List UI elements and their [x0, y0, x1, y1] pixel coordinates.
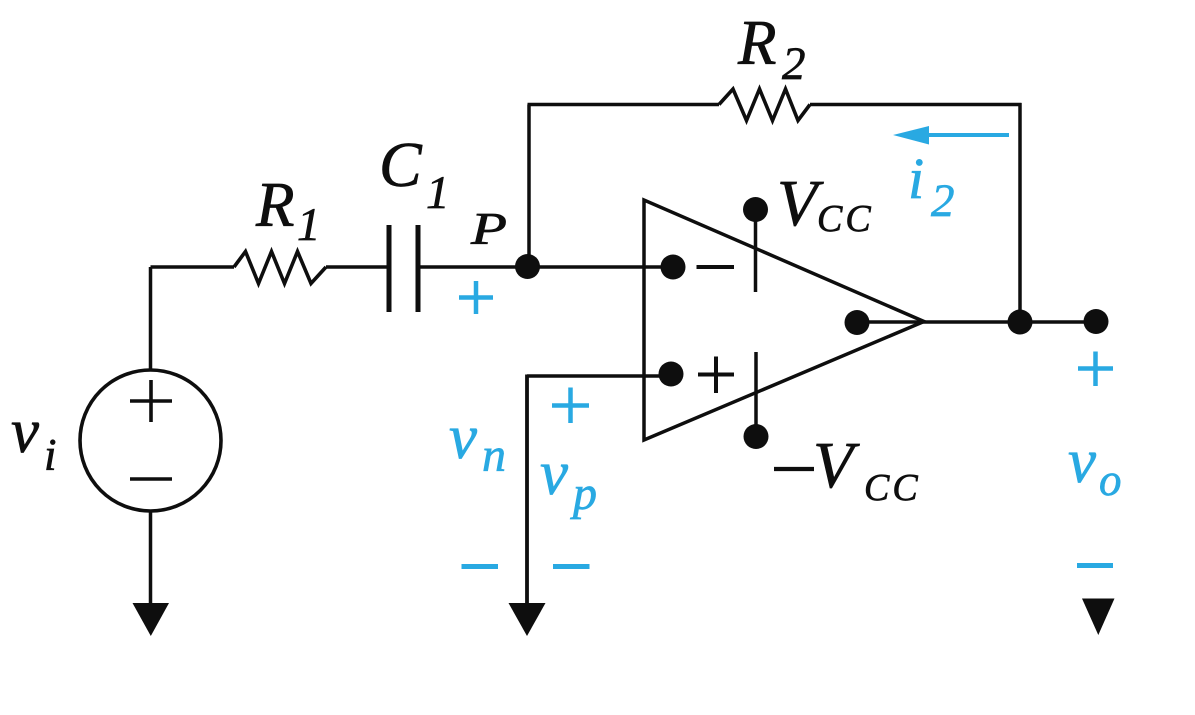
- label vi: [11, 396, 57, 480]
- wire from op-amp output to terminal: [869, 320, 1096, 324]
- wire from source top to main input wire: [149, 267, 153, 369]
- ground (under source): [133, 603, 170, 636]
- node (output terminal dot): [1084, 309, 1109, 334]
- wire from op-amp non-inverting input to vp node: [527, 374, 671, 378]
- plus sign (vn polarity, cyan): [459, 281, 493, 314]
- output pin dot (inside triangle): [845, 310, 870, 335]
- capacitor C1: [389, 225, 418, 312]
- plus sign (vo polarity, cyan): [1078, 352, 1113, 387]
- svg-text:2: 2: [931, 175, 955, 227]
- current arrow i2 (cyan): [893, 126, 1009, 145]
- svg-text:R: R: [737, 8, 776, 78]
- svg-text:P: P: [470, 204, 507, 254]
- inverting input pin (dot and minus): [661, 255, 735, 280]
- label C1: [379, 129, 450, 219]
- wire feedback top, right of R2: [810, 103, 1022, 107]
- label VCC: [777, 167, 874, 240]
- svg-text:V: V: [813, 429, 860, 502]
- svg-text:v: v: [11, 396, 39, 466]
- non-inverting input pin (dot and plus): [659, 357, 735, 394]
- -VCC pin (line and dot): [744, 352, 769, 449]
- plus sign (vp polarity, cyan): [552, 388, 589, 424]
- svg-text:R: R: [255, 170, 294, 240]
- wire from source to R1: [151, 265, 235, 269]
- wire from node P up to feedback: [527, 105, 531, 268]
- minus sign (vn polarity, cyan): [462, 564, 499, 569]
- wire from R1 to C1: [326, 265, 389, 269]
- svg-text:1: 1: [426, 167, 450, 219]
- svg-text:v: v: [449, 402, 477, 472]
- VCC pin (line and dot): [743, 197, 768, 292]
- svg-text:i: i: [44, 430, 57, 480]
- svg-text:i: i: [908, 146, 924, 211]
- svg-text:o: o: [1099, 455, 1122, 505]
- node (feedback/output junction dot): [1008, 310, 1033, 335]
- label vn (cyan): [449, 402, 506, 482]
- wire feedback right vertical down to output: [1018, 103, 1022, 322]
- label i2 (cyan): [908, 146, 955, 227]
- label P: [470, 204, 507, 254]
- label R1: [255, 170, 321, 251]
- resistor R2: [719, 89, 810, 121]
- ground (output, small triangle): [1082, 599, 1115, 636]
- svg-text:C: C: [379, 129, 423, 200]
- resistor R1: [234, 252, 326, 284]
- label R2: [737, 8, 806, 90]
- minus sign (vo polarity, cyan): [1077, 563, 1113, 568]
- wire from C1 to op-amp inverting input: [418, 265, 673, 269]
- svg-text:p: p: [570, 467, 597, 520]
- svg-text:CC: CC: [864, 467, 921, 509]
- svg-text:2: 2: [782, 38, 806, 90]
- svg-text:CC: CC: [817, 198, 874, 240]
- op-amp U1 (triangle): [644, 200, 924, 440]
- wire vp vertical down to ground: [525, 375, 529, 605]
- wire feedback top, left of R2: [528, 103, 720, 107]
- wire from source bottom to ground: [149, 511, 153, 604]
- ground (under vp wire): [509, 603, 546, 636]
- label vo (cyan): [1068, 426, 1122, 505]
- voltage source vi: [80, 370, 221, 511]
- label -VCC: [774, 429, 921, 509]
- svg-text:v: v: [1068, 426, 1096, 496]
- svg-text:1: 1: [297, 199, 321, 251]
- svg-text:v: v: [540, 438, 568, 508]
- minus sign (vp polarity, cyan): [553, 564, 590, 569]
- node P (junction dot): [515, 254, 540, 279]
- label vp (cyan): [540, 438, 597, 520]
- svg-text:n: n: [482, 429, 506, 482]
